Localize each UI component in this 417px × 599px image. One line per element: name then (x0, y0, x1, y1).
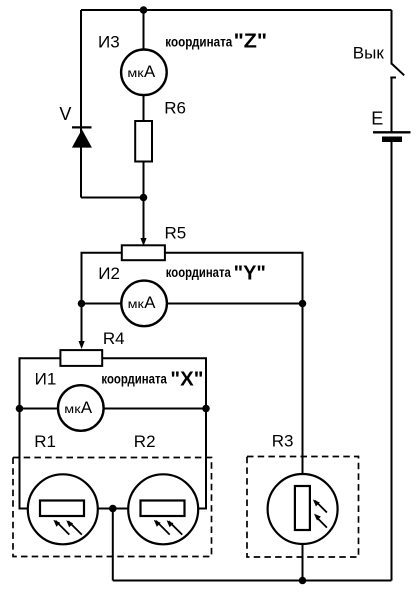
svg-text:R4: R4 (103, 329, 125, 348)
wire right bus upper (to switch) (391, 10, 393, 65)
wire R4 right arm (102, 358, 206, 408)
junction dot V/R6 node (140, 194, 148, 202)
wire V-loop bottom (81, 197, 144, 199)
svg-text:V: V (59, 104, 71, 124)
wire И2 right lead (166, 303, 302, 305)
svg-text:"Y": "Y" (234, 263, 266, 285)
junction dot И2 left node (78, 300, 86, 308)
wire battery to bottom corner (391, 142, 393, 581)
junction dot R1R2 midpoint (109, 505, 117, 513)
switch Вык lower contact (390, 77, 396, 79)
wire R1-R2 link (98, 508, 129, 510)
dashed enclosure R3 (247, 457, 359, 558)
svg-text:координата: координата (165, 34, 232, 50)
wire И3 top lead (143, 10, 145, 50)
junction dot Y node (299, 300, 307, 308)
resistor R6 (135, 121, 152, 162)
svg-text:R3: R3 (272, 432, 294, 451)
wire R1R2 midpoint down (112, 509, 114, 581)
potentiometer R5 (122, 245, 165, 260)
wire R6 bottom to junction (143, 162, 145, 198)
R4 wiper arrowhead (79, 341, 85, 349)
R5 wiper arrowhead (140, 238, 146, 246)
svg-text:"Z": "Z" (234, 31, 268, 53)
svg-text:R2: R2 (134, 432, 156, 451)
wire И1 left lead (20, 408, 59, 410)
svg-text:И2: И2 (98, 264, 120, 283)
wire R3 bottom lead (302, 544, 304, 581)
meter И2 (microammeter) (121, 281, 167, 327)
svg-text:R6: R6 (164, 99, 186, 118)
wire bottom bus (113, 580, 392, 582)
meter И1 (microammeter) (58, 385, 104, 431)
wire switch to battery (391, 78, 393, 133)
wire Y-node down to R3 (302, 304, 304, 475)
wire И2-left junction down to R4 wiper (81, 304, 83, 343)
wire left V-loop vertical (80, 10, 82, 198)
junction dot bottom node (299, 577, 307, 585)
svg-text:"X": "X" (170, 369, 203, 391)
svg-text:R1: R1 (34, 432, 56, 451)
svg-text:координата: координата (166, 264, 231, 280)
battery E long plate (373, 131, 411, 133)
wire И1 right lead (103, 408, 206, 410)
meter И3 (microammeter) (121, 50, 167, 96)
junction dot X node right (202, 405, 210, 413)
svg-text:И3: И3 (98, 32, 120, 51)
wire И2 left lead (82, 303, 122, 305)
wire right branch down to R2 (198, 409, 206, 509)
svg-text:И1: И1 (35, 370, 57, 389)
diode V (72, 127, 92, 147)
svg-text:координата: координата (101, 370, 167, 386)
photoresistor R2 (128, 474, 198, 544)
junction dot И3/R6 node top (140, 6, 148, 14)
potentiometer R4 (60, 350, 102, 366)
battery E short thick plate (382, 137, 402, 143)
svg-text:Вык: Вык (353, 44, 385, 63)
wire top bus (81, 9, 392, 11)
photoresistor R3 (268, 474, 338, 544)
svg-text:E: E (371, 109, 383, 129)
switch Вык blade (392, 64, 405, 76)
wire R5 right arm (165, 253, 303, 304)
junction dot И1 left node (16, 405, 24, 413)
svg-text:R5: R5 (165, 224, 187, 243)
wire left branch down to R1 (20, 409, 29, 509)
wire И3 bottom lead (143, 95, 145, 122)
wire R4 left arm (20, 358, 61, 408)
wire junction to R5 wiper (143, 198, 145, 240)
photoresistor R1 (28, 474, 98, 544)
dashed enclosure R1 R2 (13, 458, 212, 557)
wire R5 left arm (82, 253, 122, 304)
